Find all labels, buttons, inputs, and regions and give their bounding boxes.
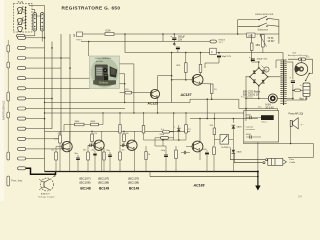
ecap C19 [206,150,208,152]
wire trimmer [214,138,220,140]
photo microphone wedge [110,66,118,77]
ecap C9 20u [94,151,96,153]
connector P1 [18,36,26,39]
svg-text:AC188: AC188 [193,184,205,188]
svg-text:Pres. batt.: Pres. batt. [11,179,23,183]
svg-text:MARRUBIALE: MARRUBIALE [1,100,5,120]
svg-text:REGISTRATORE G. 650: REGISTRATORE G. 650 [62,5,121,10]
svg-text:43 547: 43 547 [268,41,276,43]
wire from P9 [26,118,45,120]
svg-text:10µF 12V: 10µF 12V [222,56,232,58]
left pin L4 [7,112,10,118]
rail junction dots [124,102,125,103]
transformer T1 winding right [284,59,286,61]
cap C5 [89,144,91,147]
erase head TH3 [18,27,23,32]
wire from P4 [26,67,61,69]
vertical x171.6 [171,53,173,103]
svg-text:G.650 MINIREG: G.650 MINIREG [95,58,111,60]
wire from P8 [26,108,125,110]
ecap C13 [177,50,179,53]
connector P14 battery [18,167,26,170]
svg-text:120: 120 [51,150,54,152]
transformer T1 core [283,60,284,106]
svg-text:Geloso: Geloso [99,81,109,85]
photo recorder keys [104,74,108,81]
resistor R1 [75,123,85,126]
resistor R21 [185,63,188,73]
svg-text:Vedi agg. margheri: Vedi agg. margheri [38,197,55,199]
wire TR3 [56,146,62,148]
governor box [244,111,279,143]
photo stub y63.9 [120,63,134,65]
svg-text:100µF 15V: 100µF 15V [257,59,268,61]
svg-text:T+S: T+S [18,0,24,4]
rail junctions [124,33,126,35]
resistor R2 [91,123,99,126]
record head TH1 [18,7,23,13]
preamp rail y102.5 [45,102,191,104]
vertical x246 [245,76,247,121]
transistor TR5 BC149b [127,140,137,150]
fuse F2 [299,58,306,61]
svg-text:560: 560 [83,150,86,152]
wire from P6 [26,87,110,89]
svg-text:OA95: OA95 [237,126,243,129]
spare transistor BC177 [41,178,54,191]
svg-text:BC148: BC148 [80,187,90,191]
ecap C16 [165,152,167,154]
vertical bus V1 [44,34,46,172]
vertical above photo [88,42,90,57]
transformer T1 lower ticks [280,96,286,98]
jack wires [230,159,265,161]
left margin vertical wire [7,40,9,160]
svg-text:+ -: + - [301,124,304,127]
switch bank SW2 [40,13,44,32]
rail y118.5 [190,118,258,120]
resistor R7b [119,125,121,134]
governor cap C32 [249,135,251,138]
svg-text:N.4330-1: N.4330-1 [222,147,231,149]
coupling cap C12 [125,91,132,94]
second rail y41.5 [81,41,210,43]
ground bus junctions [55,171,57,173]
transistor TR4 BC149 [94,140,104,150]
cap 22nF [161,136,169,139]
junction dots on buses [44,37,46,39]
resistor R12 [175,150,178,159]
wire T1 primary top [276,59,280,61]
preamp rail y113 [45,112,244,114]
resistor R5 [55,152,58,160]
wire y59.2 [288,58,313,60]
svg-text:Vedi: Vedi [292,52,297,54]
wire TR4 [88,144,94,146]
svg-text:(BC108): (BC108) [79,180,90,184]
connector P0 [17,34,25,37]
wire row152 [155,145,166,147]
svg-text:BC149: BC149 [99,187,109,191]
ecap C29 [292,62,294,79]
wire from P10 [26,128,52,130]
svg-text:15 V: 15 V [219,42,224,44]
connector P10 [18,127,26,130]
wire TR6 [186,146,193,148]
governor contact [261,115,274,120]
connector P2 [18,46,26,49]
svg-text:H3824: H3824 [219,40,226,42]
svg-text:Ron: Ron [306,57,310,59]
svg-text:OA95: OA95 [237,151,243,154]
voltmeter V1 [264,67,269,72]
secondary stubs [287,61,293,63]
ext speaker icon [290,120,292,126]
svg-text:microfono: microfono [246,128,256,131]
vertical x257.9 lower [257,142,259,172]
resistor R22c [199,64,202,72]
connector P7 [18,97,26,100]
resistor R9 [185,125,188,134]
left pin L6 [7,176,10,186]
wire bridge bottom [258,86,260,99]
svg-text:4,7k: 4,7k [94,133,98,135]
wire y143.5 [243,143,313,145]
wire stage top [84,124,91,126]
speaker SP1 [300,59,302,62]
wire y63 join [205,62,219,64]
resistor R22 [213,128,216,135]
svg-text:(BC108): (BC108) [128,180,139,184]
photo recorder reel [103,68,107,72]
diode D2 [178,125,180,128]
motor M1 [268,94,277,103]
resistor R3 [59,135,62,143]
wire from P2 [26,47,45,49]
connector P6 [18,87,26,90]
vertical x124.7 [124,74,126,103]
bridge rectifier RS1 [250,68,268,86]
photo stub y83.8 [120,83,125,85]
svg-text:1k5: 1k5 [122,150,125,152]
svg-text:M 6V: M 6V [266,105,272,107]
svg-text:V: V [265,68,267,72]
rail y52.5 [125,52,283,54]
wire 22nF [169,137,174,139]
vertical x133.9 [133,64,135,113]
svg-text:A BC177: A BC177 [41,193,50,196]
resistor R3b stage2 [91,134,94,142]
wire ext jack [290,126,292,144]
wire battery top [312,59,314,73]
ecap C7 [77,155,79,157]
photo bottom band [93,80,116,86]
wire to switches [237,20,239,34]
diode D3 OA95 [232,119,234,124]
svg-text:22nF: 22nF [160,134,165,136]
wire R28 to bridge [251,51,253,63]
vertical bus V3 [60,34,62,139]
trimmer box N [220,135,229,145]
wire bridge top [258,62,260,68]
svg-text:AC125: AC125 [148,102,159,106]
switch bank SW1 [33,13,37,32]
cap 0.1uF [163,131,170,134]
svg-text:veloce-lento-cont.: veloce-lento-cont. [255,13,274,16]
svg-text:C: C [211,51,213,54]
wire from P13 [26,158,45,160]
wire from P12 [26,148,70,150]
AC187 base wire [172,79,194,81]
head contact row [25,7,27,9]
AC125 collector wire [157,76,159,91]
wire bridge left [246,76,250,78]
wire TR5 [120,144,127,146]
vertical bus V2 [51,42,53,129]
wire bridge right [268,76,281,78]
jack riser wires [229,148,231,160]
capacitor C26 on rail2 [210,40,216,43]
resistor R10x [103,152,105,160]
svg-text:Capsula: Capsula [246,127,254,129]
svg-text:B30 C250 Raddr.: B30 C250 Raddr. [243,91,261,94]
left pin L2 [7,62,10,68]
ecap C8 [109,152,111,154]
svg-text:Sottovoce: Sottovoce [258,29,269,32]
left pin L5 [7,152,10,160]
rheostat R31 [262,35,265,48]
resistor R8 [142,126,145,134]
vertical bus V4 [69,34,71,149]
cap C17 [183,151,185,154]
svg-text:500-1: 500-1 [262,122,268,124]
cap C6 [121,144,123,147]
transistor TR3 BC148 [62,141,72,151]
resistor R6 [87,152,90,160]
svg-text:BC149: BC149 [129,187,139,191]
head wiring [23,9,26,11]
vertical x207.2 [206,99,208,118]
svg-text:47k: 47k [58,133,61,135]
resistor R23 [213,147,216,155]
svg-text:B30 C300/2 1V: B30 C300/2 1V [243,94,259,96]
photo stub y73.8 [120,73,125,75]
photo recorder grille [96,67,102,76]
head unit box T+S [14,4,33,33]
headphone jack J1 [266,159,268,161]
svg-text:600V: 600V [246,134,251,136]
transistor TR2 AC187 [192,74,203,85]
diode D4 OA95b [232,150,236,154]
transformer T1 winding left [280,59,282,61]
svg-text:45Ω: 45Ω [256,44,261,47]
connector P12 [18,147,26,150]
wire y140 row [144,139,187,141]
connector P9 [18,117,26,120]
photo inset frame [90,56,120,89]
wire head box to banks [32,9,35,11]
svg-text:Pres.: Pres. [289,158,294,161]
play head TH2 [18,18,23,24]
wire y99.2 link [190,99,239,108]
wire motor [246,97,268,99]
switch S2b [238,25,259,27]
AC125 emitter wire [157,97,159,113]
ground arrow [257,172,259,186]
connector P3 [18,57,26,60]
connector P5 [18,77,26,80]
wire T1 top to rail [282,53,284,60]
ground bus [45,171,258,173]
svg-text:Cuffia: Cuffia [289,162,295,164]
connector P8 [18,107,26,110]
resistor R3c stage3 [123,134,126,142]
switch S2a [238,19,259,21]
svg-text:15V: 15V [178,38,183,41]
svg-text:(BC108): (BC108) [98,180,109,184]
transistor TR6 AC188 drv [192,141,203,152]
box on rail C14 [210,48,217,54]
transistor TR1 AC125 [150,89,159,98]
battery B1 [303,83,310,96]
resistor R28 45ohm [250,43,253,51]
wire battery bottom [306,96,308,100]
wire governor top [239,108,278,110]
AC187 emitter [200,83,212,85]
svg-text:0,5A: 0,5A [106,30,111,33]
resistor R11x [145,152,147,160]
photo recorder body [95,65,108,83]
left pin L3 [7,92,10,101]
svg-text:73 50: 73 50 [268,38,274,40]
ecap C15 10uF [218,53,220,55]
svg-text:TR5/1: TR5/1 [76,40,83,42]
svg-text:Presa AP (3Ω): Presa AP (3Ω) [289,113,304,116]
wire to AC125 [120,92,125,94]
wire R21 [185,53,187,63]
left pin L1 [7,45,10,52]
wire battery left [293,89,303,91]
connector P4 [18,67,26,70]
connector P13 [18,157,26,160]
bottom wire y176.6 [150,176,258,178]
top rail y34 [83,33,279,35]
fuse F1 on rail [105,33,114,36]
capacitor C28 100uF [251,58,255,60]
governor cap C31 [249,116,251,119]
svg-text:portatile: portatile [96,60,104,63]
wire from P11 [26,138,61,140]
capacitor C30 300uF [173,34,175,37]
resistor R7 [119,152,122,160]
wire from P5 [26,77,94,79]
connector P11 [18,137,26,140]
resistor R30 box [247,33,256,37]
wire from P1 [26,37,45,39]
stage rail y131.3 [45,130,191,132]
wire R31 down [262,47,264,53]
svg-text:AC187: AC187 [180,93,193,97]
svg-text:1k: 1k [148,154,150,156]
svg-text:10k: 10k [126,133,129,135]
photo oval [91,57,119,87]
wire from P7 [26,97,52,99]
wire from P3 [26,57,70,59]
